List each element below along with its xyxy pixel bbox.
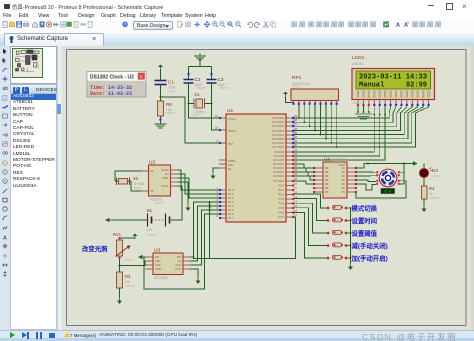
wire RP1 pin2 drop	[298, 104, 300, 118]
svg-text:P2.1/A9: P2.1/A9	[274, 154, 284, 158]
svg-text:P1.6: P1.6	[228, 212, 234, 216]
svg-text:92:99: 92:99	[406, 82, 427, 90]
wire LCD VSS stub	[357, 106, 359, 112]
svg-text:10: 10	[294, 182, 298, 186]
stepper motor MOTOR1	[376, 169, 400, 194]
svg-text:P3.4: P3.4	[278, 202, 284, 206]
svg-text:<TEXT>: <TEXT>	[146, 233, 157, 237]
svg-text:LCD1: LCD1	[352, 55, 365, 61]
svg-text:RST: RST	[228, 142, 234, 146]
microcontroller U1 AT89C51	[215, 108, 298, 222]
svg-text:<TEXT>: <TEXT>	[432, 174, 443, 178]
svg-text:Date: 11-03-23: Date: 11-03-23	[90, 91, 132, 97]
watermark	[362, 331, 457, 341]
wire U2 VCC2 to gnd	[178, 182, 189, 204]
svg-text:ab: ab	[2, 86, 8, 91]
svg-text:P3.0: P3.0	[278, 184, 284, 188]
ground terminal left of U3	[142, 256, 146, 258]
resistor R6	[158, 101, 164, 116]
junction RV1/R3/U3 node	[119, 265, 121, 267]
svg-text:XTAL2: XTAL2	[228, 129, 237, 133]
ground buttons common	[348, 263, 353, 270]
power terminal VCC above C1	[158, 65, 163, 71]
svg-text:<TEXT>: <TEXT>	[219, 86, 230, 90]
tab bar	[0, 33, 474, 46]
wire RP1 pin8 drop	[330, 104, 332, 143]
svg-text:<TEXT>: <TEXT>	[380, 197, 391, 201]
ground below R6	[155, 121, 167, 128]
ground above C2/C3	[194, 53, 206, 60]
wire rail to D4	[423, 164, 425, 169]
wire P2.1 to LCD ctrl pin	[294, 114, 380, 156]
status bar	[0, 330, 474, 341]
svg-text:0.0: 0.0	[384, 191, 390, 195]
battery B1	[146, 208, 171, 232]
ground terminal left of B1	[109, 219, 113, 221]
ADC U3 ADC0832	[146, 248, 191, 281]
push button K3	[327, 230, 351, 234]
LCD display LCD1 LM016L	[352, 55, 435, 106]
wire P0.5 to LCD D5	[294, 105, 418, 139]
svg-text:X1: X1	[194, 92, 200, 97]
svg-text:DS1302 Clock - U2: DS1302 Clock - U2	[90, 75, 134, 81]
svg-text:设置时间: 设置时间	[352, 216, 378, 225]
wire rail to motor right 1	[400, 164, 404, 173]
svg-text:37: 37	[294, 122, 298, 126]
wire RP1 pin3 drop	[303, 104, 305, 122]
svg-text:ADC0832: ADC0832	[154, 276, 168, 280]
svg-text:P3.5: P3.5	[278, 206, 284, 210]
wire P0.0 to LCD D0	[294, 105, 390, 118]
svg-text:P0.3/AD3: P0.3/AD3	[272, 129, 284, 133]
svg-text:X1: X1	[150, 169, 154, 173]
capacitor C1	[155, 81, 167, 85]
wire P2.2 to LCD ctrl pin	[294, 114, 385, 160]
junction C1/R6/RST node	[160, 96, 162, 98]
svg-text:11: 11	[294, 186, 297, 190]
svg-text:P2.3/A11: P2.3/A11	[273, 162, 284, 166]
driver U4 ULN2003A	[313, 157, 357, 199]
capacitor C3	[207, 80, 217, 84]
devices header	[10, 84, 57, 94]
wire C3 to XTAL2	[212, 83, 220, 130]
wire LCD VEE stub	[368, 106, 370, 112]
svg-text:GND: GND	[155, 267, 161, 271]
svg-text:P2.6/A14: P2.6/A14	[273, 174, 285, 178]
wire U3 VCC stub	[191, 269, 199, 277]
wire P0.2 to LCD D2	[294, 105, 401, 126]
svg-text:P0.7/AD7: P0.7/AD7	[272, 145, 284, 149]
svg-text:P1.2: P1.2	[228, 196, 234, 200]
left panel	[10, 46, 62, 330]
title bar	[0, 0, 474, 12]
svg-text:P0.6/AD6: P0.6/AD6	[272, 141, 284, 145]
crystal X2	[117, 178, 130, 186]
wire P3.4 to button K3	[294, 203, 327, 233]
svg-text:P1.4: P1.4	[228, 204, 234, 208]
playback controls	[10, 332, 15, 338]
svg-text:9: 9	[216, 139, 218, 143]
LED D4	[419, 168, 438, 178]
wire RST net	[161, 97, 220, 143]
svg-text:19: 19	[215, 114, 219, 118]
svg-text:P3.3: P3.3	[278, 197, 284, 201]
power terminal VCC at RP1	[283, 92, 288, 98]
wire B1 right to U2 VCC1	[170, 186, 183, 220]
svg-text:7B: 7B	[325, 190, 329, 194]
svg-text:2023-03-11 14:33: 2023-03-11 14:33	[359, 74, 427, 82]
svg-text:<TEXT>: <TEXT>	[191, 113, 202, 117]
svg-text:VCC: VCC	[175, 267, 181, 271]
wire motor loop bottom	[356, 181, 406, 198]
svg-text:P1.5: P1.5	[228, 208, 234, 212]
svg-text:P2.5/A13: P2.5/A13	[273, 170, 285, 174]
wire RV1 to R3	[119, 258, 121, 272]
svg-text:<TEXT>: <TEXT>	[429, 196, 440, 200]
ground right of U2	[186, 204, 191, 211]
svg-text:U1: U1	[227, 108, 233, 114]
svg-text:<TEXT>: <TEXT>	[132, 186, 143, 190]
svg-text:<TEXT>: <TEXT>	[167, 90, 178, 94]
svg-text:P0.1/AD1: P0.1/AD1	[272, 120, 284, 124]
svg-text:28: 28	[294, 177, 298, 181]
wire R6 to ground	[160, 116, 162, 123]
wire U4 3C wire	[356, 175, 376, 177]
ground below EA	[211, 172, 216, 179]
svg-text:P0.2/AD2: P0.2/AD2	[272, 124, 284, 128]
wire C2-C3 top rail	[189, 66, 212, 68]
svg-text:ALE: ALE	[228, 163, 233, 167]
svg-text:D4: D4	[432, 168, 438, 173]
svg-text:P3.7: P3.7	[278, 215, 284, 219]
svg-text:A: A	[396, 22, 400, 28]
wire P2.0 to LCD ctrl pin	[294, 114, 374, 152]
svg-text:R4: R4	[429, 186, 435, 191]
wire D4 to R4	[423, 178, 425, 186]
svg-text:<TEXT>: <TEXT>	[332, 161, 343, 165]
potentiometer RV1	[113, 232, 131, 259]
svg-text:EA: EA	[228, 167, 232, 171]
svg-text:R3: R3	[125, 274, 131, 279]
wire C1 bottom to node	[160, 85, 162, 102]
svg-text:V: V	[3, 170, 6, 174]
RTC chip U2 DS1302	[142, 160, 178, 202]
svg-text:C2: C2	[195, 77, 201, 82]
svg-text:减(手动关闭): 减(手动关闭)	[352, 241, 388, 250]
svg-text:LM016L: LM016L	[352, 62, 364, 66]
wire P0.4 to LCD D4	[294, 105, 412, 135]
svg-text:32: 32	[294, 143, 298, 147]
wire LCD VDD stub	[362, 106, 364, 112]
svg-text:P2.7/A15: P2.7/A15	[273, 179, 285, 183]
svg-text:P1.0: P1.0	[228, 188, 234, 192]
wire node to U3 CH0	[120, 261, 146, 266]
wire LCD ctrl stub	[384, 106, 386, 114]
svg-text:P0.5/AD5: P0.5/AD5	[272, 137, 284, 141]
push button K4	[327, 243, 351, 247]
wire R4 to gnd	[423, 199, 425, 205]
wire P2.3 to U4 1B	[294, 164, 314, 168]
svg-text:P1.3: P1.3	[228, 200, 234, 204]
popup window DS1302 Clock - U2	[87, 72, 146, 98]
svg-text:改变光照: 改变光照	[82, 244, 108, 253]
panel/canvas divider with scrollbar	[57, 46, 62, 330]
wire U3 CS loop to P1.6	[144, 214, 219, 289]
wire U2 IO to P1.1	[178, 174, 220, 194]
wire P1.3-P1.6 junction column	[209, 201, 211, 259]
wire B1 left	[113, 219, 148, 221]
svg-text:A: A	[3, 235, 7, 240]
svg-text:PSEN: PSEN	[228, 159, 235, 163]
push button K1	[327, 205, 351, 209]
wire U3 DI to P1.4	[191, 206, 220, 261]
wire U4 4C wire	[356, 180, 376, 181]
svg-text:XTAL1: XTAL1	[228, 117, 237, 121]
menu bar	[0, 12, 474, 20]
svg-text:27: 27	[294, 172, 298, 176]
wire buttons common	[350, 208, 352, 263]
svg-text:RST: RST	[163, 176, 169, 180]
svg-text:X2: X2	[133, 176, 139, 181]
wire RP1 pin9 drop	[336, 104, 338, 147]
wire X1 right	[205, 103, 212, 105]
push button K5	[327, 255, 351, 259]
svg-text:P2.2/A10: P2.2/A10	[273, 158, 285, 162]
wire X2 left to U2 X1	[115, 171, 142, 181]
wire X1 left	[189, 103, 195, 105]
wire gnd stub to rail	[199, 58, 201, 67]
wire P2.4 to U4 2B	[294, 168, 314, 172]
wire U2 SCLK to P1.0	[178, 170, 220, 190]
wire RP1 pin6 drop	[320, 104, 322, 135]
wire LCD ctrl stub	[373, 106, 375, 114]
svg-text:3.6V: 3.6V	[146, 228, 153, 232]
svg-text:P1.1: P1.1	[228, 192, 234, 196]
wire U3 CLK to P1.5	[191, 210, 220, 265]
wire P3.2 to button K1	[294, 194, 327, 208]
svg-text:加(手动开启): 加(手动开启)	[351, 253, 388, 262]
capacitor C2	[184, 80, 194, 84]
svg-text:X2: X2	[150, 189, 154, 193]
wire U4 5C wire	[356, 184, 376, 190]
canvas	[62, 46, 472, 330]
wire VCC to C1 top	[160, 69, 162, 81]
resistor pack RP1 RESPACK-8	[291, 75, 339, 105]
svg-text:Time: 14-33-32: Time: 14-33-32	[90, 85, 132, 91]
wire X2 left stub	[115, 180, 118, 182]
svg-text:B1: B1	[147, 208, 153, 213]
wire U4 2C to motor	[356, 171, 376, 174]
wire motor top rail	[368, 163, 417, 165]
power arrow feeding D4	[411, 163, 414, 165]
wire rail to C2	[188, 67, 190, 80]
svg-text:A: A	[404, 22, 408, 28]
wire R3 to gnd	[119, 288, 121, 297]
svg-text:8: 8	[216, 214, 218, 218]
wire U2 RST to P1.2	[178, 178, 220, 198]
svg-text:C3: C3	[218, 77, 224, 82]
wire P2.5 to U4 3B	[294, 172, 314, 176]
wire U4 1C to rail	[356, 164, 368, 169]
svg-text:设置阈值: 设置阈值	[352, 228, 378, 237]
wire X2 right stub	[128, 180, 131, 182]
svg-text:P1.7: P1.7	[228, 216, 234, 220]
wire P3.3 to button K2	[294, 199, 327, 221]
toolbar	[0, 20, 474, 34]
wire U3 DO loop to P3.7	[194, 217, 296, 259]
wire RP1 pin5 drop	[314, 104, 316, 130]
svg-text:17: 17	[294, 213, 298, 217]
wire EA stub	[213, 168, 219, 172]
svg-text:P2.0/A8: P2.0/A8	[274, 150, 284, 154]
wire P0.1 to LCD D1	[294, 105, 396, 122]
svg-text:P3.6: P3.6	[278, 211, 284, 215]
sheet border frame	[67, 50, 467, 326]
wire X2 right to U2 X2	[131, 181, 142, 191]
wire motor right lower	[400, 173, 404, 184]
wire P2.6 to U4 4B	[294, 176, 314, 180]
minimap	[10, 46, 57, 84]
svg-text:Manual: Manual	[359, 82, 384, 90]
svg-text:VCC1: VCC1	[161, 184, 169, 188]
main left toolstrip	[0, 46, 11, 330]
wire P0.6 to LCD D6	[294, 105, 423, 143]
wire LCD ctrl stub	[379, 106, 381, 114]
device list	[10, 94, 57, 330]
push button K2	[327, 218, 351, 222]
message area	[64, 332, 70, 337]
wire U3 DO to P1.3	[191, 202, 220, 257]
svg-text:R6: R6	[166, 102, 172, 107]
svg-text:<TEXT>: <TEXT>	[125, 284, 136, 288]
ground below U3	[196, 277, 201, 284]
svg-text:C1: C1	[168, 80, 174, 85]
resistor R4	[422, 186, 428, 199]
resistor R3	[117, 272, 123, 288]
crystal X1	[194, 99, 205, 109]
svg-text:18: 18	[215, 126, 219, 130]
wire P3.6 to button K5	[294, 212, 327, 258]
wire RP1 pin7 drop	[325, 104, 327, 139]
svg-text:<TEXT>: <TEXT>	[124, 258, 135, 262]
svg-text:P0.0/AD0: P0.0/AD0	[272, 116, 284, 120]
wire rail to C3	[211, 67, 213, 80]
wire P0.7 to LCD D7	[294, 105, 428, 147]
svg-text:<TEXT>: <TEXT>	[292, 85, 303, 89]
svg-text:<TEXT>: <TEXT>	[165, 111, 176, 115]
svg-text:<TEXT>: <TEXT>	[154, 201, 165, 205]
svg-text:<TEXT>: <TEXT>	[196, 86, 207, 90]
wire VCC to RP1 pin1	[286, 97, 294, 103]
svg-text:<TEXT>: <TEXT>	[352, 101, 363, 105]
svg-text:P3.1: P3.1	[278, 188, 284, 192]
svg-text:7C: 7C	[341, 190, 345, 194]
power terminal VCC at RV1	[133, 234, 138, 240]
svg-text:模式切换: 模式切换	[352, 203, 378, 212]
wire P2.7 to U4 5B	[294, 181, 314, 184]
svg-text:P2.4/A12: P2.4/A12	[273, 166, 285, 170]
svg-text:P3.2: P3.2	[278, 193, 284, 197]
svg-text:RV1: RV1	[113, 232, 122, 237]
svg-text:A: A	[3, 180, 6, 184]
svg-text:P0.4/AD4: P0.4/AD4	[272, 133, 284, 137]
wire RP1 pin4 drop	[309, 104, 311, 126]
ground below R3	[117, 297, 122, 304]
ground below R4	[422, 205, 427, 212]
wire P0.3 to LCD D3	[294, 105, 407, 130]
svg-text:RP1: RP1	[292, 75, 302, 81]
wire P3.5 to button K4	[294, 208, 327, 246]
wire RV1 top to VCC	[120, 237, 136, 239]
wire C2 to XTAL1	[189, 83, 220, 118]
